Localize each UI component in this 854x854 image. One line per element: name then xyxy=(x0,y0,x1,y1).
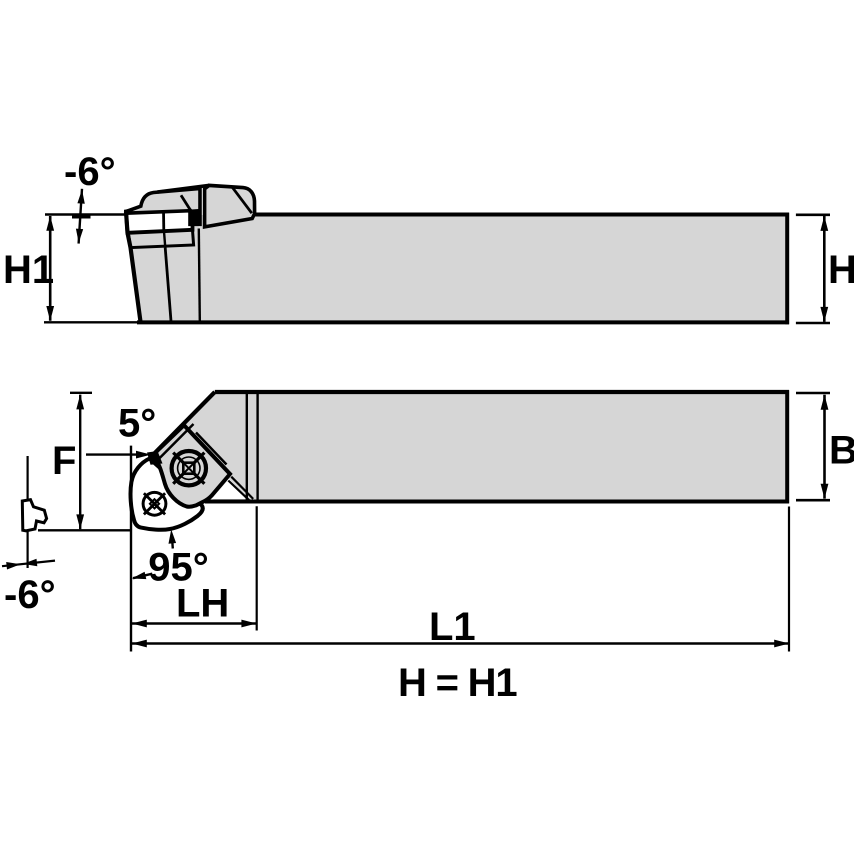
brazed joint seam line B xyxy=(228,481,250,502)
clamp front side view xyxy=(126,188,200,224)
B dimension ticks xyxy=(796,392,830,395)
head body plan view xyxy=(155,392,247,500)
side-rake icon vertical line xyxy=(27,456,29,568)
head joint vertical line 1 xyxy=(246,394,248,500)
top reference line xyxy=(45,213,127,216)
trigon insert plan view xyxy=(131,459,203,530)
head front silhouette xyxy=(126,212,141,322)
H1 dimension line xyxy=(49,216,52,321)
shank bottom edge xyxy=(44,321,787,323)
svg-text:B: B xyxy=(829,429,854,473)
shank top edge xyxy=(252,213,790,217)
F dimension line xyxy=(79,395,81,530)
H dimension line xyxy=(823,216,826,322)
shim divider line xyxy=(164,232,165,247)
shank bottom edge plan xyxy=(205,500,789,504)
clamp rear block side view xyxy=(205,185,255,227)
95 degree leader arrow 2 xyxy=(171,536,174,549)
minus6 slant line top view xyxy=(79,189,82,244)
head-shank joint line side view xyxy=(199,229,200,322)
svg-text:5°: 5° xyxy=(118,402,156,446)
head inner edge line xyxy=(165,248,171,322)
junction patch at insert top tip xyxy=(147,451,163,465)
shank right edge plan xyxy=(785,390,789,503)
svg-text:H1: H1 xyxy=(3,248,54,292)
white notch wedge xyxy=(212,479,249,499)
svg-text:F: F xyxy=(52,439,76,483)
H dimension ticks xyxy=(796,214,830,217)
insert divider line xyxy=(162,210,165,232)
clamp front foot dark xyxy=(190,209,201,225)
vertical extension line at insert tip xyxy=(130,446,132,652)
L1 dimension line xyxy=(132,642,789,645)
F dimension tick xyxy=(70,392,92,394)
insert side view xyxy=(126,208,193,233)
clamp top edge connector xyxy=(158,185,210,192)
head 45 degree edge xyxy=(153,392,215,455)
95 degree leader arrow 1 xyxy=(133,574,152,579)
svg-text:-6°: -6° xyxy=(64,150,116,194)
clamp inner chamfer line left xyxy=(158,424,193,460)
svg-text:H: H xyxy=(828,248,854,292)
clamp inner chamfer line right xyxy=(196,433,227,465)
clamp front chamfer line xyxy=(181,195,190,210)
tip horizontal reference line xyxy=(38,529,131,531)
insert screw S2 xyxy=(143,492,166,515)
shank top edge plan xyxy=(215,390,789,394)
LH right extension line xyxy=(256,506,258,630)
LH dimension line xyxy=(132,622,256,625)
shank body plan view xyxy=(246,394,785,500)
clamp plan view xyxy=(154,425,230,507)
svg-text:-6°: -6° xyxy=(4,573,56,617)
B dimension line xyxy=(823,395,826,499)
head joint vertical line 2 xyxy=(256,394,258,503)
L1 right extension line xyxy=(788,507,790,652)
shank body side view xyxy=(200,215,786,321)
head body side view xyxy=(126,208,200,322)
clamp rear chamfer line xyxy=(233,188,252,214)
svg-text:H = H1: H = H1 xyxy=(398,661,517,705)
5 degree leader arrow xyxy=(86,453,140,455)
shim seat side view xyxy=(128,230,193,247)
shank right edge xyxy=(785,213,789,325)
svg-text:LH: LH xyxy=(176,582,229,626)
brazed joint seam line A xyxy=(231,477,253,499)
side-rake insert icon xyxy=(22,500,46,531)
clamp screw S1 xyxy=(172,451,206,485)
minus6 angular mark bottom xyxy=(2,561,55,567)
